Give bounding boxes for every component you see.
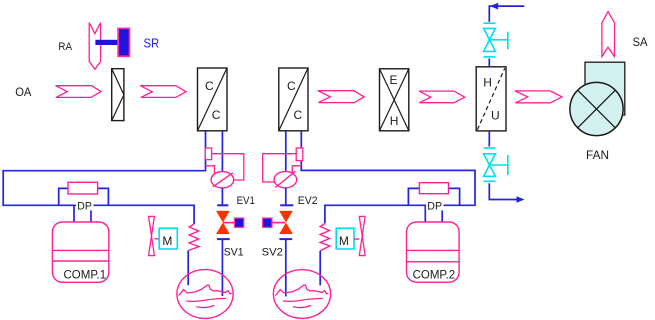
cooling coil C/C box 1 <box>198 68 228 131</box>
fan housing <box>585 62 625 115</box>
svg-text:DP: DP <box>427 201 442 213</box>
fan blades X <box>578 90 616 128</box>
svg-text:C: C <box>212 108 221 122</box>
filter box <box>112 69 124 121</box>
liquid wave 3 right <box>293 305 311 307</box>
humidifier H/U box <box>476 67 506 131</box>
CC2 left pipe to expansion valve <box>285 131 287 172</box>
electric heater E/H box <box>380 69 409 131</box>
drain valve (cyan) <box>484 148 508 181</box>
flow arrow A1 OA to filter <box>56 86 101 98</box>
label DP right <box>426 201 444 211</box>
pink line FD1 to EEV1 <box>212 154 244 180</box>
damper actuator SR body <box>118 28 129 56</box>
svg-text:OA: OA <box>15 85 31 99</box>
filter drier FD2 <box>296 148 303 161</box>
flange tick above EV1 <box>217 204 228 206</box>
liquid wave 2 right <box>283 298 323 301</box>
flow arrow A2 filter to coil <box>140 86 186 98</box>
DP bypass stubs right <box>408 188 419 205</box>
EEV1 slash <box>213 173 233 187</box>
condenser fan blade left <box>149 216 155 255</box>
link blade to motor left <box>155 238 160 240</box>
right refrigerant loop pipe <box>301 131 475 224</box>
EV2 solenoid coil (blue square) <box>263 218 272 227</box>
return-air arrow RA (down) <box>89 23 100 70</box>
DP sensor left <box>68 182 98 194</box>
cooling coil C/C box 2 <box>279 68 308 131</box>
DP sensor right <box>419 183 448 194</box>
flow arrow A3 coil to heater <box>318 91 364 103</box>
svg-text:SV2: SV2 <box>262 247 283 259</box>
svg-text:M: M <box>162 234 172 248</box>
svg-text:COMP.1: COMP.1 <box>64 267 107 281</box>
crankcase heater zigzag right <box>320 224 330 251</box>
pipe EEV1 to EV1 <box>221 188 223 205</box>
pipe zigzag to accumulator right <box>319 251 321 286</box>
pink elbow pipe1 to EEV1 <box>206 166 215 175</box>
accumulator shell right <box>273 270 330 319</box>
svg-text:E: E <box>390 73 398 87</box>
EV2 link to coil <box>272 222 285 224</box>
EV1 link to coil <box>223 222 234 224</box>
pink line FD2 to EEV2 <box>263 154 297 182</box>
EV1 solenoid coil (blue square) <box>234 218 243 227</box>
condenser fan blade right <box>359 216 365 255</box>
compressor COMP.2 tank <box>407 222 460 282</box>
svg-text:FAN: FAN <box>586 148 609 162</box>
svg-text:C: C <box>294 108 303 122</box>
pipe zigzag to accumulator left <box>187 251 189 286</box>
svg-text:SV1: SV1 <box>224 246 244 258</box>
expansion valve EV2 (red bowtie) <box>279 211 293 234</box>
DP bypass stubs left <box>59 188 68 205</box>
crankcase heater zigzag left <box>188 224 199 251</box>
compressor stubs right <box>424 205 426 222</box>
filter drier FD1 <box>205 148 211 160</box>
svg-text:C: C <box>287 79 296 93</box>
flow arrow A4 heater to humidifier <box>419 91 465 103</box>
left refrigerant loop pipe <box>3 131 205 224</box>
liquid wave 2 left <box>186 298 226 301</box>
liquid wave 3 left <box>196 305 214 307</box>
flange tick above EV2 <box>280 204 293 206</box>
svg-text:SR: SR <box>144 35 160 50</box>
pipe EV1 to accumulator <box>221 239 223 296</box>
EEV2 sight glass <box>274 171 297 187</box>
damper actuator SR bar <box>95 40 119 45</box>
fan motor M left <box>159 228 177 249</box>
fan circle <box>570 82 623 135</box>
fan motor M right <box>336 228 354 249</box>
liquid wave 1 left <box>179 285 232 295</box>
supply arrowhead <box>490 3 498 10</box>
liquid wave 1 right <box>275 285 328 295</box>
pipe stub above humidifier <box>488 59 490 67</box>
pipe EV2 to accumulator <box>285 239 287 296</box>
supply-air arrow SA (up) <box>602 12 615 57</box>
svg-text:M: M <box>339 234 349 248</box>
EEV2 slash <box>275 171 295 187</box>
svg-text:DP: DP <box>77 201 92 213</box>
label DP left <box>76 201 94 211</box>
drain pipe <box>489 183 519 199</box>
CC1 right pipe to expansion valve <box>221 131 223 172</box>
water supply pipe to humidifier <box>489 6 524 22</box>
svg-text:H: H <box>483 76 492 90</box>
compressor stubs left <box>73 205 75 222</box>
flow arrow A5 humidifier to fan <box>515 91 562 103</box>
svg-text:U: U <box>491 109 500 123</box>
pipe stub below humidifier <box>488 131 490 147</box>
accumulator shell left <box>177 270 233 319</box>
svg-text:EV2: EV2 <box>298 195 318 207</box>
svg-text:H: H <box>390 114 399 128</box>
drain arrowhead <box>517 196 525 203</box>
expansion valve EV1 (red bowtie) <box>216 211 230 234</box>
svg-text:C: C <box>205 79 214 93</box>
EEV1 sight glass <box>211 172 234 188</box>
svg-text:COMP.2: COMP.2 <box>413 267 456 281</box>
compressor COMP.1 tank <box>52 222 108 282</box>
link motor to blade right <box>354 238 359 240</box>
supply valve (cyan) <box>484 23 508 57</box>
flange tick below EV1 <box>217 238 230 240</box>
pipe EEV2 to EV2 <box>285 188 287 205</box>
svg-text:RA: RA <box>58 41 72 53</box>
flange tick below EV2 <box>279 238 292 240</box>
svg-text:EV1: EV1 <box>237 195 255 207</box>
svg-text:SA: SA <box>633 35 648 49</box>
pink elbow pipe2 to EEV2 <box>292 166 301 174</box>
